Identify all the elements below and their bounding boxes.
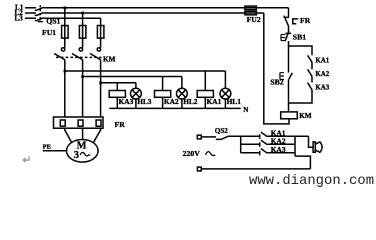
svg-text:HL3: HL3	[137, 97, 152, 106]
relay coil KA1	[197, 91, 213, 98]
horn HA	[313, 142, 315, 152]
wire coil KA2 to bus	[162, 97, 164, 108]
thermal relay FR heater box	[54, 117, 104, 128]
wire rail	[288, 41, 290, 73]
wire drop to lamp HL2	[181, 77, 183, 89]
svg-text:KA3: KA3	[119, 97, 134, 106]
contact alarm KA2	[260, 140, 268, 147]
wire horn feed	[309, 136, 314, 147]
contact alarm KA3	[260, 149, 268, 156]
svg-text:KA3: KA3	[315, 85, 329, 92]
wire alarm right vertical	[294, 136, 296, 156]
pushbutton SB1	[281, 35, 285, 41]
motor M 3~	[67, 140, 99, 163]
svg-text:220V: 220V	[183, 149, 201, 158]
wire alarm return	[201, 168, 310, 170]
junction L1 phase tap	[64, 7, 67, 10]
wire neutral bus N	[109, 107, 240, 109]
node junction feed2	[81, 75, 84, 78]
wire drop to coil KA3	[116, 83, 118, 91]
svg-text:FR: FR	[300, 16, 311, 25]
svg-text:FU2: FU2	[247, 15, 261, 24]
svg-text:FR: FR	[115, 120, 126, 129]
svg-text:N: N	[243, 106, 248, 114]
svg-text:FU1: FU1	[42, 28, 56, 37]
wire FR to motor 3	[94, 128, 101, 142]
KM linkage dashed	[56, 56, 102, 58]
FR heater element 1	[60, 120, 65, 126]
svg-text:PE: PE	[43, 144, 51, 151]
svg-text:KM: KM	[103, 55, 116, 63]
svg-text:www.diangon.com: www.diangon.com	[249, 173, 374, 189]
svg-text:QS1: QS1	[46, 17, 60, 26]
contact alarm KA1	[260, 132, 268, 139]
contactor coil KM	[281, 112, 298, 119]
switch QS1 pole 2	[35, 13, 44, 16]
wire L1 to switch	[25, 7, 36, 9]
wire link to return	[295, 156, 310, 169]
wire phase1 vertical	[64, 8, 66, 48]
sine symbol	[206, 152, 216, 156]
wire phase1 lower vertical	[64, 60, 66, 117]
wire L2 from switch to FU2	[44, 12, 264, 14]
contact KA2 NO	[308, 69, 312, 76]
wire L3 from switch to corner	[44, 17, 101, 19]
contactor KM main contact 3	[97, 48, 100, 51]
wire branch bottom	[289, 90, 313, 103]
pushbutton SB2	[280, 73, 284, 80]
wire alarm branch1 left	[228, 135, 260, 137]
svg-text:HL1: HL1	[227, 97, 242, 106]
fuse FU1 pole3	[97, 26, 104, 39]
wire alarm branch3	[241, 152, 260, 154]
wire drop to coil KA2	[162, 77, 164, 91]
relay coil KA3	[109, 91, 125, 98]
wire drop to coil KA1	[204, 71, 206, 91]
wire drop to lamp HL1	[224, 71, 226, 88]
wire L2 to switch	[25, 12, 36, 14]
svg-text:QS2: QS2	[215, 127, 228, 135]
contactor KM main contact 2	[79, 48, 82, 51]
wire lamp HL3 to bus	[135, 99, 137, 108]
svg-text:↵: ↵	[22, 155, 31, 167]
wire phase3 vertical	[100, 18, 102, 47]
switch QS2	[197, 135, 201, 139]
wire FR to motor 1	[65, 128, 72, 142]
lamp HL2	[177, 88, 188, 99]
wire alarm branch2	[241, 143, 260, 145]
terminal 220V return	[197, 167, 201, 171]
wire coil KA1 to bus	[204, 97, 206, 108]
wire alarm left vertical	[240, 136, 242, 153]
wire phase3 lower vertical	[100, 60, 102, 117]
fuse FU2 lower	[245, 11, 257, 15]
svg-text:KM: KM	[299, 112, 312, 120]
wire L3 to switch	[25, 17, 36, 19]
contactor KM main contact 1	[61, 48, 64, 51]
svg-text:KA2: KA2	[164, 97, 179, 106]
svg-text:L3: L3	[15, 14, 24, 22]
wire phase2 vertical	[82, 13, 84, 48]
wire feed line 2	[83, 76, 182, 78]
FR heater element 2	[78, 120, 83, 126]
node junction feed3	[99, 82, 102, 85]
FR heater element 3	[96, 120, 101, 126]
fuse FU1 pole2	[79, 26, 86, 39]
fuse FU1 pole1	[62, 26, 69, 39]
wire branch	[311, 76, 313, 82]
svg-text:KA1: KA1	[315, 58, 329, 65]
svg-text:KA2: KA2	[315, 71, 329, 78]
wire lamp HL1 to bus	[224, 99, 226, 108]
lamp HL3	[131, 88, 142, 99]
svg-text:KA1: KA1	[207, 97, 222, 106]
svg-text:HL2: HL2	[183, 97, 198, 106]
wire control rail top	[288, 8, 290, 18]
wire drop to lamp HL3	[135, 83, 137, 88]
wire phase2 lower vertical	[82, 60, 84, 117]
wire lamp HL2 to bus	[181, 99, 183, 108]
svg-text:SB2: SB2	[270, 77, 283, 86]
wire feed line 3	[101, 82, 136, 84]
QS1 linkage dashed	[39, 5, 41, 21]
contact KA3 NO	[308, 83, 312, 90]
contact FR NC	[284, 16, 289, 18]
wire feed line 1	[65, 70, 226, 72]
svg-text:3: 3	[74, 150, 79, 161]
svg-text:SB1: SB1	[293, 32, 306, 41]
switch QS1 pole 1	[35, 7, 44, 10]
wire rail	[288, 26, 290, 33]
wire coil bottom return	[264, 13, 289, 124]
wire alarm branch1 right	[267, 135, 308, 137]
fuse FU2 upper	[245, 6, 257, 10]
wire coil KA3 to bus	[116, 97, 118, 108]
wire branch	[311, 62, 313, 69]
wire L1 from switch to FU2	[44, 7, 289, 9]
lamp HL1	[220, 88, 231, 99]
switch QS1 pole 3	[35, 18, 44, 21]
wire PE	[43, 150, 67, 152]
junction L2 phase tap	[81, 12, 84, 15]
wire branch top	[289, 46, 313, 55]
relay coil KA2	[155, 91, 171, 98]
wire rail to coil	[288, 79, 290, 112]
contact KA1 NO	[308, 55, 312, 62]
wire FR to motor 2	[82, 128, 84, 139]
node junction feed1	[64, 70, 67, 73]
